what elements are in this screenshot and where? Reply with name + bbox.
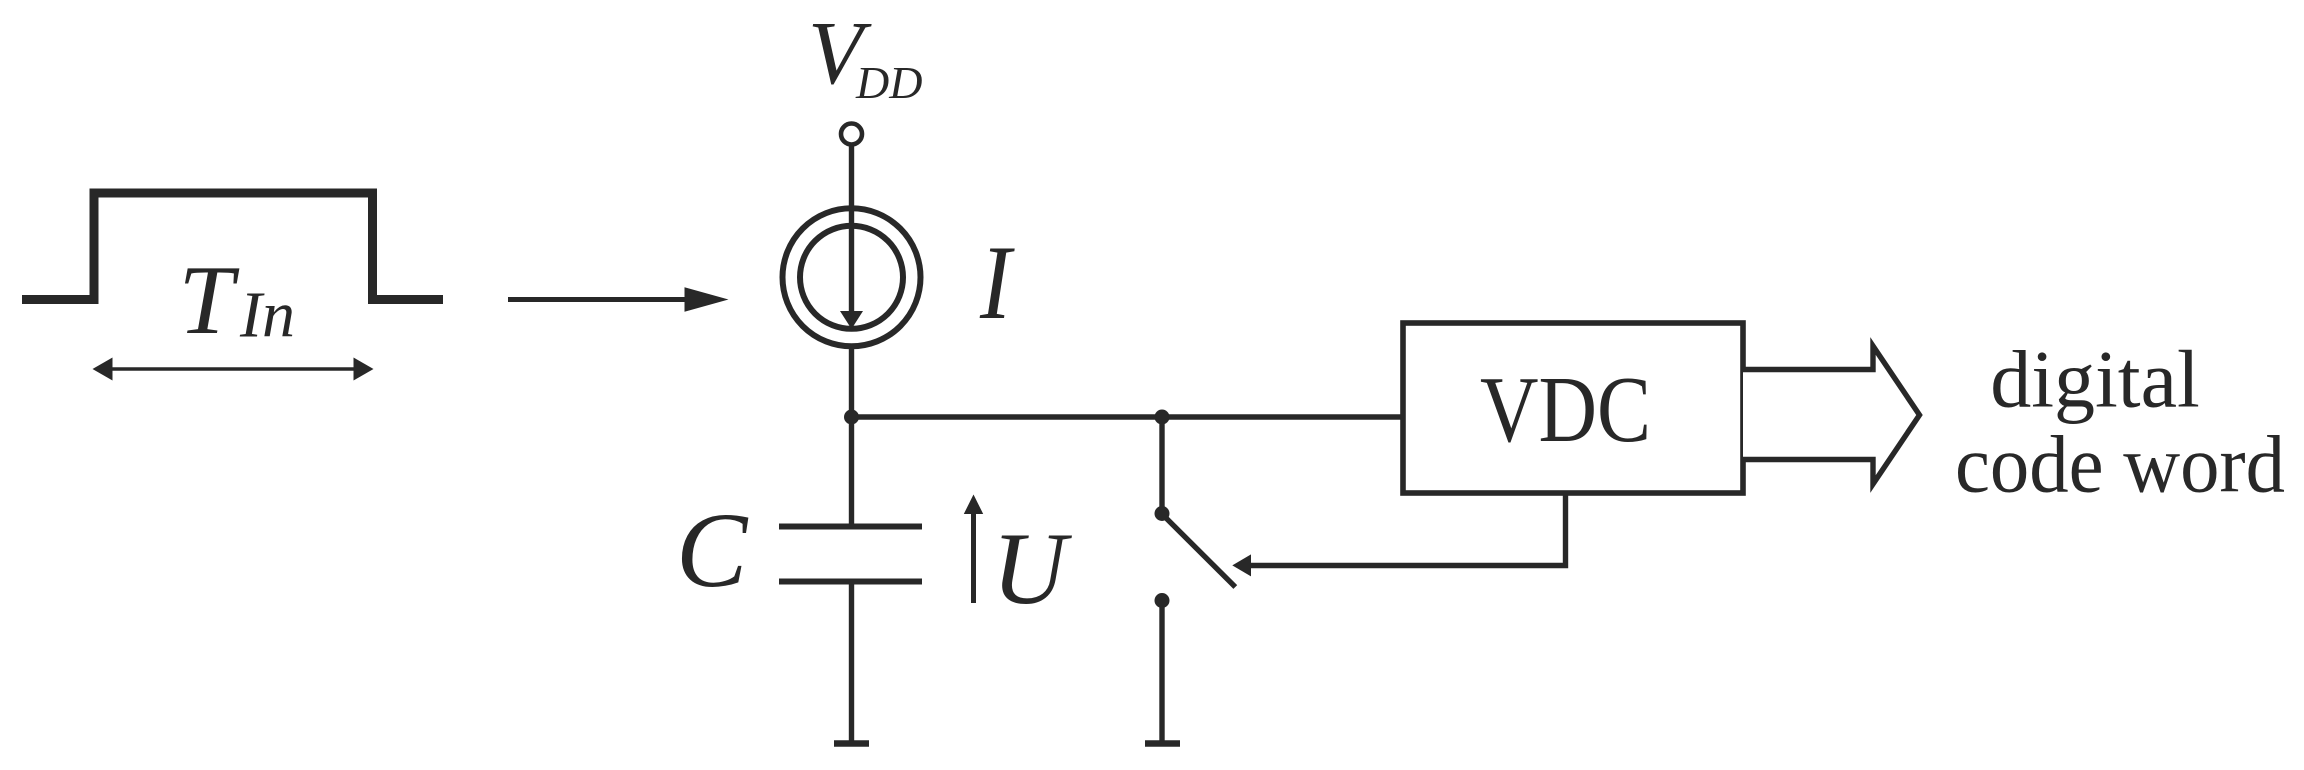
svg-text:U: U	[992, 512, 1072, 626]
svg-text:I: I	[979, 224, 1015, 342]
svg-text:In: In	[239, 279, 295, 352]
svg-text:code word: code word	[1955, 419, 2285, 510]
svg-text:DD: DD	[855, 57, 922, 108]
svg-text:T: T	[179, 246, 240, 355]
svg-text:VDC: VDC	[1480, 358, 1651, 462]
svg-text:digital: digital	[1990, 334, 2200, 425]
svg-text:C: C	[676, 492, 749, 610]
